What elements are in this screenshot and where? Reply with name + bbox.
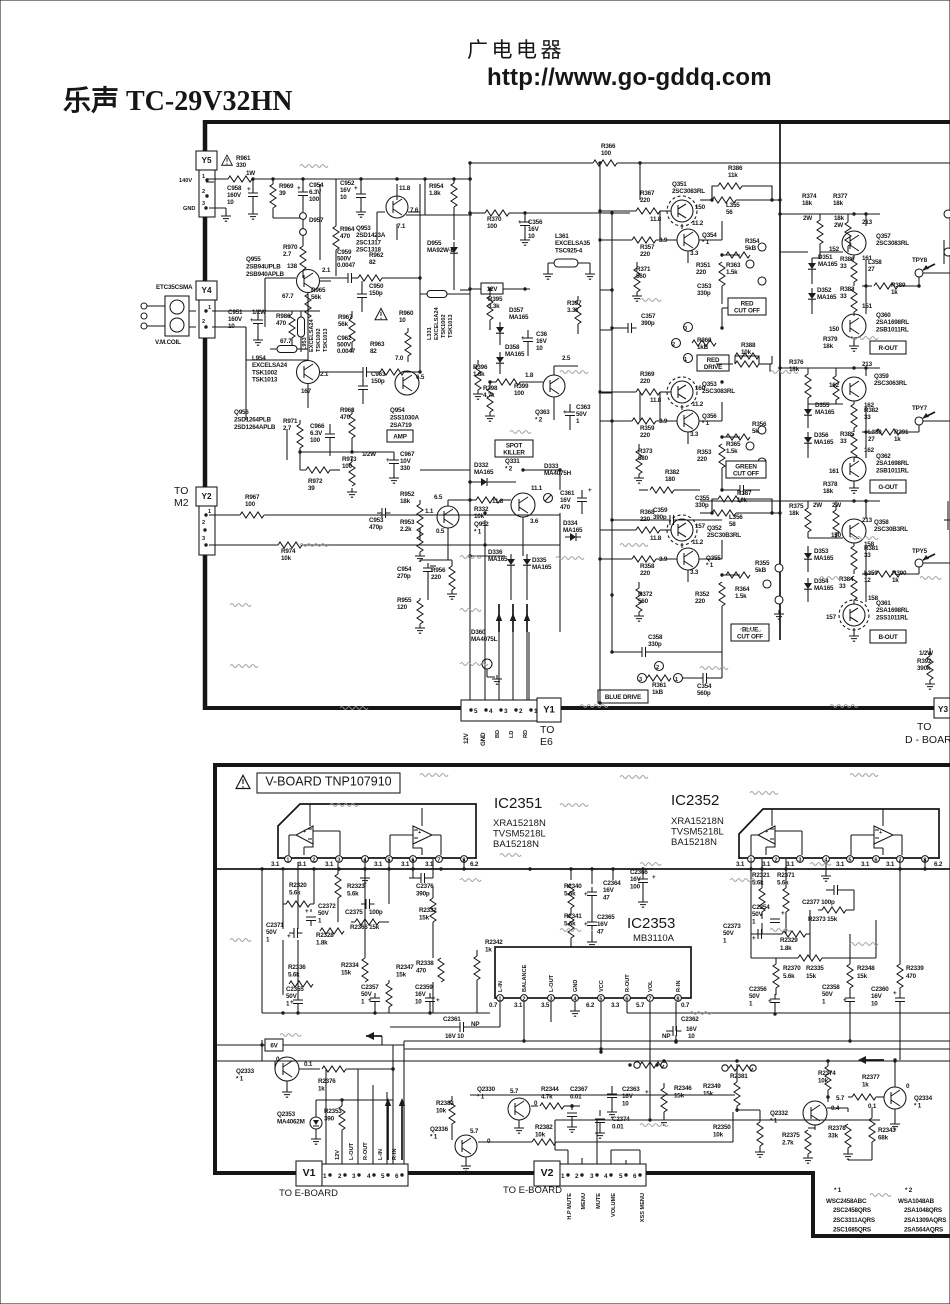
svg-text:100: 100 <box>514 390 525 397</box>
svg-text:MA165: MA165 <box>509 314 529 321</box>
resistor R361 <box>638 674 647 683</box>
svg-text:56: 56 <box>726 209 733 216</box>
svg-text:+: + <box>297 185 301 192</box>
svg-text:10k: 10k <box>436 1107 447 1114</box>
svg-text:EXCELSA35: EXCELSA35 <box>555 240 591 247</box>
svg-text:15k: 15k <box>703 1090 714 1097</box>
transistor Q359 <box>842 377 866 401</box>
svg-text:C952: C952 <box>340 180 355 187</box>
svg-text:R962: R962 <box>369 252 384 259</box>
wire 12V rail to transistors <box>460 289 470 291</box>
hatch artifact <box>870 1194 891 1197</box>
svg-text:16V: 16V <box>536 338 548 345</box>
circle A symbol <box>482 659 492 669</box>
svg-text:MA4075H: MA4075H <box>544 470 572 477</box>
wire c2361 net <box>390 1013 500 1027</box>
op-amp IC2352 outline <box>739 809 939 859</box>
svg-text:MA4062M: MA4062M <box>277 1118 305 1125</box>
svg-text:C2374: C2374 <box>612 1116 630 1123</box>
svg-text:16V: 16V <box>415 991 427 998</box>
IC2353 pin4 ground <box>574 1002 576 1008</box>
svg-text:R2378: R2378 <box>828 1125 846 1132</box>
trimmer circle 2 <box>655 662 664 671</box>
svg-text:10k: 10k <box>535 1131 546 1138</box>
svg-text:* 2: * 2 <box>535 416 543 423</box>
svg-text:50V: 50V <box>723 930 735 937</box>
svg-text:D358: D358 <box>505 344 520 351</box>
svg-text:* 1: * 1 <box>706 562 714 569</box>
svg-text:3.1: 3.1 <box>836 861 845 868</box>
svg-text:XSS MENU: XSS MENU <box>640 1193 646 1222</box>
svg-text:2: 2 <box>656 665 659 671</box>
svg-text:1: 1 <box>749 1000 753 1007</box>
svg-text:15k: 15k <box>396 971 407 978</box>
svg-text:EXCELSA24: EXCELSA24 <box>309 318 315 352</box>
svg-text:7.1: 7.1 <box>397 223 406 230</box>
svg-text:50V: 50V <box>318 910 330 917</box>
svg-text:+: + <box>843 997 847 1004</box>
svg-text:2SD1423A: 2SD1423A <box>356 232 386 239</box>
svg-text:+: + <box>368 997 372 1004</box>
transistor Q2334 <box>884 1087 906 1109</box>
svg-text:C950: C950 <box>369 283 384 290</box>
svg-text:100: 100 <box>310 437 321 444</box>
svg-text:EXCELSA24: EXCELSA24 <box>434 306 440 340</box>
IC2352 pin4 ground <box>825 863 827 874</box>
svg-text:+: + <box>584 921 588 928</box>
svg-text:C359: C359 <box>653 507 668 514</box>
inductor L331 <box>427 291 447 298</box>
svg-text:15k: 15k <box>419 914 430 921</box>
IC2352 pins <box>748 856 755 863</box>
svg-text:VOLUME: VOLUME <box>611 1193 617 1217</box>
svg-text:R2381: R2381 <box>730 1073 748 1080</box>
svg-text:Q955: Q955 <box>246 256 261 263</box>
svg-text:R2347: R2347 <box>396 964 414 971</box>
op-amp IC2351-a <box>296 826 313 844</box>
svg-text:150: 150 <box>829 326 840 333</box>
svg-text:100: 100 <box>342 463 353 470</box>
svg-text:R2343: R2343 <box>878 1127 896 1134</box>
svg-text:R397: R397 <box>567 300 582 307</box>
connector Y5 <box>196 151 217 170</box>
svg-text:82: 82 <box>370 348 377 355</box>
svg-text:6: 6 <box>874 858 877 864</box>
svg-text:TVSM5218L: TVSM5218L <box>493 829 546 840</box>
svg-text:R376: R376 <box>789 359 804 366</box>
svg-text:R2353: R2353 <box>324 1108 342 1115</box>
V.M.COIL component <box>165 296 189 336</box>
svg-text:162: 162 <box>829 382 840 389</box>
hatch artifact <box>810 863 831 866</box>
svg-text:150: 150 <box>695 204 706 211</box>
svg-text:2SA1698RL: 2SA1698RL <box>876 319 909 326</box>
svg-text:乐声 TC-29V32HN: 乐声 TC-29V32HN <box>63 85 292 117</box>
svg-text:C2362: C2362 <box>681 1016 699 1023</box>
warning triangle v-board <box>236 775 250 788</box>
node B-OUT <box>870 630 906 643</box>
transistor Q362 <box>842 457 866 481</box>
svg-text:WSA1048AB: WSA1048AB <box>898 1198 935 1205</box>
svg-text:5.7: 5.7 <box>836 1095 845 1102</box>
hatch artifact <box>770 371 798 374</box>
svg-text:157: 157 <box>695 523 706 530</box>
hatch artifact <box>640 1124 668 1127</box>
node RED CUT OFF <box>728 298 766 315</box>
svg-text:Q356: Q356 <box>702 413 717 420</box>
svg-text:2SS1030A: 2SS1030A <box>390 414 420 421</box>
svg-text:10: 10 <box>399 317 406 324</box>
svg-text:R2336: R2336 <box>288 964 306 971</box>
svg-text:3.1: 3.1 <box>325 861 334 868</box>
svg-text:BALANCE: BALANCE <box>522 964 528 992</box>
svg-text:5kB: 5kB <box>755 567 767 574</box>
svg-text:R387: R387 <box>737 490 752 497</box>
svg-text:4.7k: 4.7k <box>541 1093 553 1100</box>
svg-text:* 1: * 1 <box>770 1117 778 1124</box>
svg-text:10: 10 <box>688 1033 695 1040</box>
hatch artifact <box>850 774 878 777</box>
svg-text:2SD1264PLB: 2SD1264PLB <box>234 416 272 423</box>
arrow up V1 L-IN <box>387 1100 389 1160</box>
wire r964 column <box>335 179 337 226</box>
svg-text:V2: V2 <box>541 1167 554 1179</box>
svg-text:58: 58 <box>729 521 736 528</box>
svg-text:Y2: Y2 <box>201 492 211 501</box>
svg-text:Q352: Q352 <box>707 525 722 532</box>
svg-text:10: 10 <box>340 194 347 201</box>
svg-text:330p: 330p <box>648 641 662 648</box>
hatch artifact <box>620 776 648 779</box>
wire B out net <box>865 546 867 602</box>
warning triangle near Y5 <box>222 155 233 165</box>
svg-text:MA165: MA165 <box>488 556 508 563</box>
svg-text:Q2332: Q2332 <box>770 1110 789 1117</box>
svg-text:50V: 50V <box>266 929 278 936</box>
transistor Q2333 <box>275 1057 299 1081</box>
inductor L953 <box>298 317 305 337</box>
svg-text:TO: TO <box>540 724 554 736</box>
connector Y3 <box>934 698 950 718</box>
hatch artifact <box>580 705 608 708</box>
svg-text:C357: C357 <box>641 313 656 320</box>
svg-text:220: 220 <box>640 516 651 523</box>
transistor Q952 <box>511 493 535 517</box>
svg-text:L361: L361 <box>555 233 569 240</box>
wire base Q359 <box>808 400 843 404</box>
svg-text:R971: R971 <box>283 418 298 425</box>
svg-text:LD: LD <box>509 731 515 738</box>
transistor Q952b <box>437 506 459 528</box>
svg-text:R353: R353 <box>697 449 712 456</box>
svg-text:TSC925-4: TSC925-4 <box>555 247 583 254</box>
hatch artifact <box>460 556 481 559</box>
svg-text:11k: 11k <box>728 172 738 179</box>
svg-text:V.M.COIL: V.M.COIL <box>155 339 181 346</box>
svg-text:TPY5: TPY5 <box>912 548 928 555</box>
transistor Q953 <box>386 196 408 218</box>
svg-text:2SB94UPLB: 2SB94UPLB <box>246 263 281 270</box>
wire q953 emitter <box>406 179 472 215</box>
svg-text:R2334: R2334 <box>341 962 359 969</box>
svg-text:C2367: C2367 <box>570 1086 588 1093</box>
svg-text:R363: R363 <box>726 262 741 269</box>
svg-text:220: 220 <box>695 598 706 605</box>
svg-text:R2338: R2338 <box>416 960 434 967</box>
svg-text:R967: R967 <box>338 314 353 321</box>
svg-text:MA165: MA165 <box>563 527 583 534</box>
svg-text:C2355: C2355 <box>286 986 304 993</box>
svg-text:TSK1002: TSK1002 <box>441 314 447 338</box>
connector V1 <box>296 1161 322 1186</box>
svg-text:2SB1011RL: 2SB1011RL <box>876 467 909 474</box>
svg-text:2SC1685QRS: 2SC1685QRS <box>833 1227 871 1234</box>
svg-text:11.8: 11.8 <box>492 498 504 505</box>
svg-text:0.01: 0.01 <box>612 1123 624 1130</box>
svg-text:27: 27 <box>868 436 875 443</box>
svg-text:10k: 10k <box>281 555 292 562</box>
svg-text:6.3V: 6.3V <box>310 430 323 437</box>
wire mid nets 2 <box>571 886 643 946</box>
svg-text:MUTE: MUTE <box>596 1193 602 1209</box>
junction dots upper <box>598 209 601 212</box>
svg-text:C2354: C2354 <box>752 904 770 911</box>
svg-text:16V: 16V <box>528 226 540 233</box>
svg-text:2: 2 <box>522 997 525 1003</box>
svg-text:3.1: 3.1 <box>514 1002 523 1009</box>
svg-text:+: + <box>563 409 567 416</box>
svg-text:* 1: * 1 <box>236 1075 244 1082</box>
svg-text:BLUE DRIVE: BLUE DRIVE <box>605 694 641 701</box>
wire Y4 pin2 <box>189 327 290 360</box>
svg-text:TSK1002: TSK1002 <box>252 369 278 376</box>
svg-text:+: + <box>305 908 309 915</box>
svg-text:1.8k: 1.8k <box>429 190 441 197</box>
svg-text:* 1: * 1 <box>702 420 710 427</box>
warning triangle mid <box>375 308 387 319</box>
hatch artifact <box>730 879 758 882</box>
lower block bottom border <box>213 1171 813 1175</box>
node R-OUT <box>870 341 906 354</box>
svg-text:BD: BD <box>495 730 501 738</box>
svg-text:2SC3083RL: 2SC3083RL <box>876 240 909 247</box>
svg-text:2SA1048QRS: 2SA1048QRS <box>904 1207 942 1214</box>
svg-text:R372: R372 <box>638 591 653 598</box>
transistor Q360 <box>842 314 866 338</box>
hatch artifact <box>850 337 878 340</box>
lower main bus <box>215 868 950 870</box>
svg-text:+: + <box>768 998 772 1005</box>
svg-text:1k: 1k <box>891 289 898 296</box>
svg-text:12V: 12V <box>335 1150 341 1160</box>
svg-text:3.1: 3.1 <box>401 861 410 868</box>
svg-text:3.6: 3.6 <box>530 518 539 525</box>
svg-text:3: 3 <box>684 326 687 332</box>
svg-text:R2377: R2377 <box>862 1074 880 1081</box>
svg-text:R-IN: R-IN <box>676 981 682 993</box>
lower block top border <box>213 763 950 767</box>
svg-text:18k: 18k <box>400 498 411 505</box>
svg-text:R378: R378 <box>823 481 838 488</box>
svg-text:1: 1 <box>675 677 678 683</box>
hatch artifact <box>770 929 791 932</box>
svg-text:D - BOAR: D - BOAR <box>905 734 950 746</box>
connector Y4 <box>196 281 217 300</box>
svg-text:C2372: C2372 <box>318 903 336 910</box>
svg-text:2SA1698RL: 2SA1698RL <box>876 460 909 467</box>
svg-text:R953: R953 <box>400 519 415 526</box>
svg-text:DRIVE: DRIVE <box>704 364 722 371</box>
wire v2 feeds <box>555 1120 640 1164</box>
arrow up 3 <box>526 604 528 632</box>
svg-text:R358: R358 <box>640 563 655 570</box>
node AMP <box>387 430 413 442</box>
svg-text:3: 3 <box>202 201 205 207</box>
svg-text:47: 47 <box>603 894 610 901</box>
svg-text:3.3: 3.3 <box>690 250 699 257</box>
wire ic2353 nets <box>500 1002 950 1120</box>
wire upper misc 2 <box>352 452 470 506</box>
wire rail 213 G <box>796 368 880 376</box>
svg-text:11.8: 11.8 <box>399 185 411 192</box>
wire bottom arrows row <box>529 513 560 700</box>
svg-text:1k: 1k <box>892 577 899 584</box>
svg-text:TSK1002: TSK1002 <box>316 328 322 352</box>
svg-text:R968: R968 <box>340 407 355 414</box>
hatch artifact <box>740 629 761 632</box>
svg-text:C2358: C2358 <box>822 984 840 991</box>
junction dots lower <box>281 867 284 870</box>
long control rails <box>215 1049 950 1061</box>
svg-text:5.7: 5.7 <box>470 1128 479 1135</box>
svg-text:C361: C361 <box>560 490 575 497</box>
svg-text:2.2k: 2.2k <box>400 526 412 533</box>
svg-text:R388: R388 <box>741 342 756 349</box>
svg-text:50V: 50V <box>576 411 588 418</box>
svg-text:390p: 390p <box>641 320 655 327</box>
svg-text:100: 100 <box>309 196 320 203</box>
svg-text:0: 0 <box>906 1083 910 1090</box>
svg-text:12V: 12V <box>463 732 470 744</box>
svg-text:0.1: 0.1 <box>304 1061 313 1068</box>
ground Q362 <box>853 481 855 486</box>
svg-text:167: 167 <box>301 388 312 395</box>
svg-text:R986: R986 <box>276 313 291 320</box>
svg-text:Q2330: Q2330 <box>477 1086 496 1093</box>
svg-text:R2350: R2350 <box>713 1124 731 1131</box>
svg-text:140V: 140V <box>179 178 192 184</box>
svg-text:2W: 2W <box>813 502 822 509</box>
svg-text:5.6k: 5.6k <box>347 890 359 897</box>
svg-text:L-IN: L-IN <box>498 981 504 992</box>
transistor Q2332 <box>803 1101 827 1125</box>
svg-text:11.2: 11.2 <box>692 539 704 546</box>
hatch artifact <box>230 604 251 607</box>
svg-text:1.5k: 1.5k <box>735 593 747 600</box>
svg-text:5kB: 5kB <box>745 245 757 252</box>
svg-text:4.7k: 4.7k <box>483 392 495 399</box>
wire 12V rail <box>470 288 530 290</box>
svg-text:16V: 16V <box>340 187 352 194</box>
svg-text:D336: D336 <box>488 549 503 556</box>
svg-text:2SD1264APLB: 2SD1264APLB <box>234 424 276 431</box>
svg-text:D355: D355 <box>815 402 830 409</box>
arrow up 1 <box>498 604 500 632</box>
svg-text:Q2334: Q2334 <box>914 1095 933 1102</box>
node BLUE DRIVE box <box>598 690 648 703</box>
svg-text:56k: 56k <box>311 294 322 301</box>
svg-text:100: 100 <box>601 150 612 157</box>
wire Q353-Q356 <box>682 402 722 444</box>
svg-text:D353: D353 <box>814 548 829 555</box>
svg-text:R368: R368 <box>640 509 655 516</box>
svg-text:160V: 160V <box>227 192 242 199</box>
svg-text:GND: GND <box>573 980 579 992</box>
svg-text:39: 39 <box>279 190 286 197</box>
svg-text:3.1: 3.1 <box>374 861 383 868</box>
svg-text:5.6k: 5.6k <box>289 889 301 896</box>
svg-text:Q358: Q358 <box>874 519 889 526</box>
trimmer R360 <box>684 323 693 332</box>
hatch artifact <box>420 774 448 777</box>
svg-text:V1: V1 <box>303 1167 316 1179</box>
svg-text:广电电器: 广电电器 <box>467 39 565 62</box>
svg-text:0.1: 0.1 <box>868 1103 877 1110</box>
wire 12V node row <box>300 452 352 456</box>
svg-text:330: 330 <box>400 465 411 472</box>
svg-text:MA165: MA165 <box>818 261 838 268</box>
svg-text:EXCELSA24: EXCELSA24 <box>252 362 288 369</box>
hatch artifact <box>850 943 878 946</box>
svg-text:R952: R952 <box>400 491 415 498</box>
op-amp IC2352-a <box>758 826 775 844</box>
svg-text:R-OUT: R-OUT <box>625 974 631 992</box>
hatch artifact <box>830 705 858 708</box>
svg-text:7: 7 <box>437 858 440 864</box>
svg-text:R2349: R2349 <box>703 1083 721 1090</box>
svg-text:+: + <box>781 910 785 917</box>
svg-text:330: 330 <box>236 162 247 169</box>
svg-text:180: 180 <box>665 476 676 483</box>
svg-text:L954: L954 <box>252 355 266 362</box>
hatch artifact <box>640 863 661 866</box>
svg-text:1.8k: 1.8k <box>316 939 328 946</box>
connector Y1 <box>461 700 537 721</box>
svg-text:220: 220 <box>640 432 651 439</box>
svg-text:8: 8 <box>676 997 679 1003</box>
svg-text:R2346: R2346 <box>674 1085 692 1092</box>
svg-text:C36: C36 <box>536 331 548 338</box>
svg-text:470: 470 <box>416 967 427 974</box>
svg-text:R973: R973 <box>342 456 357 463</box>
svg-text:2SC3083RL: 2SC3083RL <box>702 388 735 395</box>
svg-text:12: 12 <box>864 577 871 584</box>
svg-text:TO E-BOARD: TO E-BOARD <box>503 1185 562 1196</box>
svg-text:C2375: C2375 <box>345 909 363 916</box>
svg-text:C953: C953 <box>369 517 384 524</box>
svg-text:Y4: Y4 <box>201 286 211 295</box>
hatch artifact <box>330 804 358 807</box>
svg-text:2.7: 2.7 <box>283 251 292 258</box>
svg-text:TO E-BOARD: TO E-BOARD <box>279 1188 338 1199</box>
svg-text:15k: 15k <box>857 973 868 980</box>
svg-text:3.1: 3.1 <box>762 861 771 868</box>
svg-text:MA165: MA165 <box>505 351 525 358</box>
wire inner left vertical <box>469 163 471 700</box>
svg-text:MA165: MA165 <box>817 294 837 301</box>
svg-text:R2342: R2342 <box>485 939 503 946</box>
svg-text:R332: R332 <box>474 506 489 513</box>
